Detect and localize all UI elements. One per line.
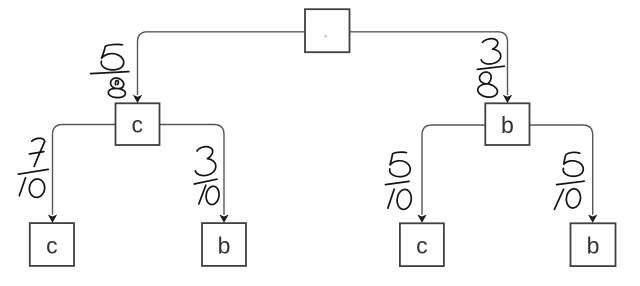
handwritten label 5/10 right: numeral 1 (554, 189, 563, 209)
leaf c2 box (400, 223, 444, 266)
node root dot label (325, 35, 327, 37)
wire node B to leaf b2 (530, 125, 593, 215)
arrowhead into leaf c2 (417, 215, 426, 223)
handwritten label 7/10: numeral 0 (28, 178, 46, 198)
svg-text:c: c (132, 111, 144, 137)
leaf b1 letter b (218, 233, 231, 259)
handwritten label 5/10 right: fraction bar (557, 181, 585, 184)
handwritten label 3/8: fraction bar (477, 66, 504, 69)
handwritten label 5/8: fraction bar (91, 72, 129, 74)
svg-text:b: b (218, 233, 231, 259)
node C box (116, 103, 160, 145)
node C letter c (132, 111, 144, 137)
svg-text:b: b (587, 233, 600, 259)
svg-text:b: b (501, 112, 514, 138)
wire root to node C (138, 32, 306, 95)
svg-text:c: c (416, 233, 428, 259)
handwritten label 5/10 right: numeral 5 (563, 152, 583, 176)
node B box (485, 103, 529, 145)
wire root to node B (350, 32, 508, 95)
node root box (305, 9, 350, 52)
handwritten label 5/10 right: numeral 0 (565, 188, 582, 209)
handwritten label 7/10: numeral 1 (19, 178, 25, 196)
handwritten label 3/10: numeral 1 (199, 185, 206, 204)
handwritten label 5/8: numeral 8 (108, 78, 125, 98)
leaf c1 letter c (46, 233, 58, 259)
handwritten label 3/10: fraction bar (194, 179, 217, 184)
handwritten label 5/10 left: numeral 0 (396, 189, 413, 211)
leaf b2 letter b (587, 233, 600, 259)
handwritten label 3/10: numeral 3 (195, 147, 215, 176)
handwritten label 5/8: numeral 5 (101, 44, 124, 69)
handwritten label 7/10: fraction bar (18, 169, 48, 174)
handwritten label 7/10: numeral 7 (29, 138, 44, 166)
arrowhead into leaf b2 (588, 215, 597, 223)
node B letter b (501, 112, 514, 138)
handwritten label 3/8: numeral 3 (481, 39, 501, 64)
wire node B to leaf c2 (422, 125, 486, 215)
wire node C to leaf b1 (160, 125, 225, 215)
handwritten label 5/10 left: fraction bar (385, 181, 409, 184)
wire node C to leaf c1 (53, 125, 116, 215)
handwritten label 5/10 left: numeral 1 (388, 189, 394, 208)
svg-text:c: c (46, 233, 58, 259)
leaf b2 box (571, 223, 616, 266)
arrowhead into node C (133, 95, 142, 103)
leaf c1 box (30, 223, 74, 266)
arrowhead into leaf b1 (219, 215, 228, 223)
handwritten label 3/8: numeral 8 (478, 72, 498, 97)
arrowhead into leaf c1 (48, 215, 57, 223)
handwritten label 3/10: numeral 0 (205, 185, 220, 205)
arrowhead into node B (503, 95, 512, 103)
leaf b1 box (202, 223, 246, 266)
handwritten label 5/10 left: numeral 5 (390, 152, 411, 177)
leaf c2 letter c (416, 233, 428, 259)
